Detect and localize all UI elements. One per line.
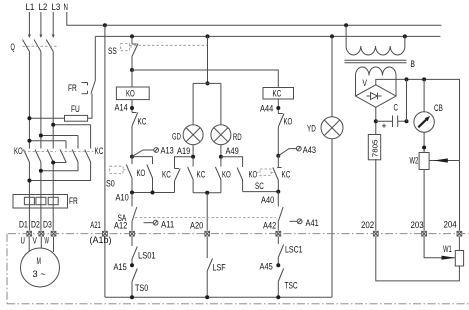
svg-text:S0: S0	[106, 179, 115, 189]
wire L2 drop	[40, 12, 42, 37]
wire N rail	[67, 12, 442, 27]
junction rail-SS	[130, 34, 134, 38]
junction tap L2	[39, 134, 43, 138]
meter CB	[414, 79, 443, 152]
node A19	[191, 155, 195, 159]
node A43	[276, 145, 316, 158]
wire L3 phase	[52, 52, 54, 149]
terminal A20	[190, 221, 210, 236]
svg-text:A45: A45	[260, 261, 273, 271]
wire FU to L1	[29, 117, 64, 119]
contactor KC main contacts	[27, 123, 103, 183]
wire KC return to L2	[41, 162, 78, 171]
potentiometer W2	[410, 153, 460, 231]
svg-text:7805: 7805	[373, 139, 380, 157]
limit switch LSC1	[278, 237, 302, 265]
svg-text:A43: A43	[303, 145, 316, 155]
svg-text:Q: Q	[11, 42, 15, 52]
wire L1 phase	[28, 52, 30, 149]
svg-text:KO: KO	[126, 89, 135, 99]
svg-text:TS0: TS0	[135, 283, 148, 293]
svg-text:A20: A20	[190, 221, 203, 231]
wire bottom return rail	[105, 295, 332, 299]
terminal D2	[31, 219, 44, 236]
svg-text:A19: A19	[177, 146, 190, 156]
svg-text:FR: FR	[69, 196, 78, 206]
svg-text:A40: A40	[261, 195, 274, 205]
svg-text:W1: W1	[443, 244, 452, 254]
svg-text:A10: A10	[116, 193, 129, 203]
svg-text:D1: D1	[19, 219, 28, 229]
junction KC-L3	[51, 161, 55, 165]
wire A21 column	[104, 25, 106, 297]
svg-text:A12: A12	[114, 221, 127, 231]
coil KO	[115, 70, 150, 113]
svg-text:KC: KC	[138, 117, 147, 127]
svg-text:RD: RD	[233, 132, 242, 142]
wire FR to control rail	[94, 36, 96, 80]
junction KC-L1	[27, 179, 31, 183]
svg-text:FR: FR	[68, 83, 77, 93]
terminal 203	[411, 220, 427, 236]
svg-text:A11: A11	[161, 219, 174, 229]
wire L1 drop	[28, 12, 30, 37]
junction rail-transformer	[403, 34, 407, 38]
terminal D1	[19, 219, 32, 236]
selector SA linkage	[135, 217, 276, 219]
terminal A21	[90, 220, 112, 245]
pushbutton SC pair	[221, 156, 291, 192]
wire U	[28, 237, 30, 252]
svg-text:KO: KO	[137, 168, 146, 178]
svg-text:TSC: TSC	[285, 280, 299, 290]
svg-text:D2: D2	[31, 219, 40, 229]
junction KC-L2	[39, 169, 43, 173]
thermal switch TS0	[132, 269, 148, 298]
junction SS bottom	[130, 68, 134, 72]
potentiometer W1	[376, 237, 464, 281]
svg-text:SS: SS	[108, 46, 117, 56]
svg-text:FU: FU	[71, 104, 80, 114]
svg-text:L2: L2	[39, 2, 48, 12]
svg-text:SC: SC	[255, 181, 264, 191]
rectifier V	[356, 78, 397, 107]
wire L3 drop	[52, 12, 54, 37]
regulator 7805	[368, 135, 380, 231]
svg-text:KO: KO	[284, 117, 293, 127]
svg-text:204: 204	[444, 220, 457, 230]
svg-text:W2: W2	[410, 156, 419, 166]
svg-text:A13: A13	[161, 146, 174, 156]
node A45	[260, 261, 281, 271]
breaker Q	[11, 35, 59, 53]
svg-text:KC: KC	[162, 170, 171, 180]
node A14	[130, 106, 134, 110]
wire control rail	[95, 34, 440, 38]
svg-text:KO: KO	[14, 146, 23, 156]
indicator lamp feed	[193, 36, 221, 124]
relay contact FR (NC)	[68, 36, 95, 93]
contact KC (GD branch to A10 bus)	[162, 157, 193, 193]
terminal A12	[114, 221, 134, 236]
terminal 202	[361, 220, 378, 236]
node A49	[219, 155, 223, 159]
wire W	[53, 237, 55, 252]
svg-text:D3: D3	[43, 219, 52, 229]
terminal D3	[43, 219, 56, 236]
svg-text:B: B	[411, 59, 415, 69]
wire DC plus line	[376, 77, 460, 230]
wire KC tap from L3	[53, 124, 90, 126]
contact KO self-hold	[132, 157, 153, 193]
svg-text:A44: A44	[260, 103, 273, 113]
wire L2 phase	[40, 52, 42, 149]
svg-text:CB: CB	[434, 103, 443, 113]
terminal 204	[444, 220, 462, 237]
node A44	[276, 106, 280, 110]
contact KO aux NC below A44	[278, 114, 292, 156]
svg-text:KC: KC	[273, 89, 282, 99]
contactor KO main contacts	[14, 146, 56, 162]
junction N-A21	[103, 23, 107, 27]
svg-text:KC: KC	[282, 170, 291, 180]
transformer B	[345, 25, 415, 96]
contact KC (GD branch to A20)	[188, 157, 206, 193]
enclosure boundary top	[8, 233, 469, 235]
limit switch LS01	[132, 237, 156, 265]
svg-text:LS01: LS01	[138, 250, 156, 260]
wire V	[40, 237, 42, 248]
svg-text:A21: A21	[90, 220, 101, 230]
pushbutton S0 (NO start)	[106, 157, 132, 193]
limit switch LSF	[207, 237, 226, 297]
pushbutton SS (NC stop)	[108, 36, 208, 72]
fuse FU	[27, 94, 92, 122]
svg-text:L1: L1	[26, 2, 35, 12]
motor M1	[21, 236, 60, 288]
svg-text:A15: A15	[114, 262, 127, 272]
wire KC tap from L1	[29, 140, 66, 142]
selector SA pole 2	[278, 192, 319, 231]
thermal switch TSC	[278, 269, 298, 298]
svg-text:KO: KO	[249, 170, 258, 180]
enclosure boundary bottom	[7, 303, 469, 305]
svg-text:A41: A41	[306, 218, 319, 228]
thermal overload FR heaters	[13, 195, 78, 209]
svg-text:3 ~: 3 ~	[33, 269, 46, 279]
svg-text:GD: GD	[172, 132, 181, 142]
capacitor C	[374, 79, 409, 134]
wire KC return to L1	[29, 162, 90, 181]
wire FU to FR	[88, 94, 92, 119]
wire KC tap from L2	[41, 135, 78, 137]
wire A40 bus	[243, 190, 281, 205]
junction tap L1	[27, 139, 31, 143]
contact KO (RD branch)	[215, 157, 230, 193]
svg-text:U: U	[21, 236, 25, 246]
terminal A42	[263, 221, 281, 236]
svg-text:W: W	[45, 236, 50, 246]
svg-text:A14: A14	[115, 103, 128, 113]
svg-text:LSC1: LSC1	[285, 245, 303, 255]
contact KC aux NC below A14	[132, 113, 147, 157]
svg-text:N: N	[64, 2, 68, 12]
svg-text:(A1b): (A1b)	[90, 235, 112, 245]
svg-text:KO: KO	[222, 170, 231, 180]
coil KC	[132, 70, 294, 114]
svg-text:203: 203	[411, 220, 424, 230]
svg-text:C: C	[394, 103, 399, 113]
node A13	[130, 146, 174, 159]
svg-text:KC: KC	[197, 170, 206, 180]
svg-text:KC: KC	[95, 146, 104, 156]
wire A10 bus	[116, 191, 175, 203]
junction L1-FU	[27, 116, 31, 120]
svg-text:LSF: LSF	[213, 262, 227, 272]
junction tap L3	[51, 123, 55, 127]
svg-text:A42: A42	[263, 221, 276, 231]
wire KC return to L3	[53, 161, 66, 164]
junction rail-lamps	[206, 34, 210, 38]
svg-text:202: 202	[361, 220, 374, 230]
node A15	[114, 262, 135, 272]
svg-text:V: V	[363, 78, 367, 88]
junction N-transformer	[344, 23, 348, 27]
lamp GD	[172, 125, 203, 157]
junction rail-YD	[330, 34, 334, 38]
svg-text:L3: L3	[52, 2, 61, 12]
lamp RD	[211, 125, 242, 157]
svg-text:YD: YD	[307, 123, 316, 133]
svg-text:V: V	[33, 236, 37, 246]
svg-text:A49: A49	[226, 146, 239, 156]
selector SA pole 1	[118, 193, 175, 231]
svg-text:M: M	[37, 256, 41, 266]
enclosure boundary left	[6, 234, 8, 304]
wire lamp bus to A20	[193, 191, 221, 231]
lamp YD	[307, 36, 343, 297]
